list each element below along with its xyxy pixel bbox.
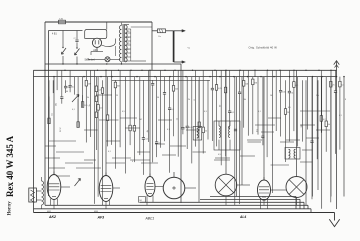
- rectifier tube AZ1: [92, 38, 101, 47]
- wire rectifier anode loop: [85, 30, 107, 39]
- svg-text:100: 100: [84, 105, 87, 107]
- potentiometer arrow volume: [72, 95, 79, 103]
- svg-text:Skalenbel.: Skalenbel.: [85, 59, 96, 61]
- svg-text:30k: 30k: [117, 85, 120, 87]
- wire bottom nest 3: [140, 201, 304, 203]
- transformer TR secondary taps: [125, 28, 131, 30]
- svg-text:0,1: 0,1: [52, 113, 54, 116]
- wire anode loop riser: [106, 22, 108, 30]
- tube V3 AB2: [145, 177, 155, 197]
- ground arrow: [334, 213, 336, 221]
- wire vertical x296.5 to gang2: [296, 70, 298, 176]
- tuning gang C gang2: [286, 177, 307, 198]
- svg-text:2k: 2k: [188, 99, 190, 101]
- svg-text:AL4: AL4: [239, 215, 246, 219]
- resistor box under V3: [139, 197, 146, 203]
- svg-text:Horny: Horny: [8, 201, 13, 216]
- svg-text:0,5: 0,5: [122, 111, 125, 113]
- svg-text:4k: 4k: [147, 130, 149, 132]
- svg-text:0,2: 0,2: [145, 139, 148, 141]
- wire vertical x312.5: [312, 77, 314, 197]
- wire vertical x331: [330, 70, 332, 196]
- svg-text:0,5: 0,5: [288, 107, 291, 109]
- svg-text:5k: 5k: [291, 92, 293, 94]
- svg-text:32 V: 32 V: [60, 127, 62, 132]
- wire vertical comb lines: [48, 80, 50, 118]
- wire vertical x181: [180, 64, 182, 203]
- wire transformer to box right: [131, 26, 152, 28]
- svg-text:8: 8: [194, 99, 196, 100]
- wire bottom nest 2: [200, 198, 300, 200]
- svg-text:AK2: AK2: [48, 215, 56, 219]
- output choke coil: [42, 181, 44, 205]
- svg-text:0,25: 0,25: [218, 88, 222, 90]
- speaker output transformer: [29, 188, 37, 202]
- wire vertical x336.5 right: [336, 77, 338, 209]
- svg-text:2k: 2k: [205, 130, 207, 132]
- wire vertical x106 to tube V2: [105, 70, 107, 175]
- wire vertical x54 to tube V1: [53, 77, 55, 175]
- tube V4 AL4: [258, 180, 271, 200]
- wire vertical x344 right: [343, 77, 345, 197]
- junction dots bus B: [53, 76, 54, 77]
- tube V2 AF3: [99, 176, 113, 202]
- wire inner box left edge: [48, 31, 50, 197]
- components on comb lines: [48, 118, 50, 124]
- wire power box right edge: [151, 22, 153, 70]
- svg-text:4k: 4k: [328, 124, 330, 126]
- wire vertical x264 to tube V4: [263, 77, 265, 180]
- svg-text:0,5: 0,5: [72, 86, 75, 88]
- wire bottom ground line: [34, 212, 335, 214]
- tube V1 AK2: [47, 175, 61, 200]
- IF transformer box 1: [214, 121, 240, 150]
- svg-text:1M: 1M: [67, 87, 70, 89]
- svg-text:10k: 10k: [175, 89, 178, 91]
- svg-text:4: 4: [132, 161, 133, 163]
- svg-text:Rex 40 W 345 A: Rex 40 W 345 A: [5, 135, 15, 197]
- wire bottom nest 5: [34, 208, 312, 210]
- svg-text:0,4: 0,4: [98, 90, 101, 92]
- svg-text:Dr.: Dr.: [159, 35, 162, 38]
- svg-text:0,1: 0,1: [108, 151, 111, 153]
- wire tube links: [61, 186, 70, 188]
- svg-text:110: 110: [127, 49, 130, 51]
- wire left frame vertical x33.5: [33, 70, 35, 212]
- svg-text:2M: 2M: [287, 112, 290, 114]
- transformer TR secondary winding: [125, 25, 127, 62]
- junction dots bus A: [44, 70, 45, 71]
- arrow to speaker top: [174, 30, 183, 32]
- transformer TR core: [122, 24, 124, 62]
- svg-text:8: 8: [345, 99, 346, 101]
- antenna: [336, 61, 338, 77]
- svg-text:0,1: 0,1: [232, 112, 235, 114]
- wire rectifier cathode: [91, 51, 103, 53]
- svg-text:150: 150: [127, 37, 130, 39]
- wire speaker links: [36, 190, 41, 192]
- wire inner box top edge: [49, 30, 83, 32]
- svg-text:1M: 1M: [254, 82, 257, 84]
- wire bus A y70: [34, 69, 337, 71]
- svg-text:AF3: AF3: [97, 216, 105, 220]
- svg-text:100: 100: [282, 91, 285, 93]
- svg-text:1M: 1M: [139, 119, 142, 121]
- wire vertical x242: [241, 77, 243, 185]
- wire bottom nest 1: [210, 196, 296, 198]
- svg-text:0,1: 0,1: [258, 111, 261, 113]
- svg-text:4 B1: 4 B1: [52, 33, 57, 35]
- svg-text:1k: 1k: [177, 118, 179, 120]
- speaker connector bar: [173, 31, 175, 62]
- svg-text:220: 220: [127, 31, 130, 33]
- wire vertical x318: [317, 80, 319, 190]
- potentiometer arrow tone: [75, 179, 81, 187]
- svg-text:0,3: 0,3: [100, 108, 103, 110]
- wire power box left edge: [44, 22, 46, 205]
- wire bus HT upper y64: [45, 63, 181, 65]
- svg-text:125: 125: [127, 43, 130, 45]
- wire rectifier right loop: [101, 39, 115, 47]
- wire bus tie x255: [254, 70, 256, 76]
- svg-text:0,3: 0,3: [204, 111, 207, 113]
- wire vertical x321.7: [321, 77, 323, 209]
- wire power box top edge: [45, 21, 152, 23]
- svg-text:25: 25: [116, 95, 118, 97]
- svg-text:ABC1: ABC1: [145, 217, 155, 221]
- svg-text:0,5: 0,5: [218, 154, 221, 156]
- junction dots y64: [62, 63, 63, 64]
- svg-text:2M: 2M: [88, 84, 91, 86]
- svg-text:60: 60: [220, 105, 222, 107]
- oscillator coil L1: [193, 127, 202, 141]
- svg-text:50k: 50k: [245, 84, 248, 86]
- svg-text:10k: 10k: [243, 99, 246, 101]
- switch S1: [62, 31, 64, 49]
- svg-text:0,1: 0,1: [171, 109, 174, 111]
- wire vertical x306: [305, 80, 307, 205]
- fuse F1: [59, 20, 66, 24]
- dial lamp: [105, 57, 110, 62]
- svg-text:50: 50: [157, 97, 159, 99]
- svg-text:5k: 5k: [89, 104, 91, 106]
- svg-text:0,1: 0,1: [72, 109, 75, 111]
- choke Dr: [152, 30, 158, 32]
- svg-text:5k: 5k: [87, 97, 89, 99]
- svg-text:40: 40: [66, 91, 68, 93]
- drum circle D1: [163, 177, 185, 199]
- svg-text:0,5: 0,5: [256, 129, 258, 132]
- svg-text:0,05: 0,05: [189, 127, 193, 129]
- wire bus B y76.5: [34, 76, 338, 78]
- switch S2: [76, 47, 77, 48]
- volume ladder: [95, 86, 97, 92]
- wire bus C y80: [112, 79, 210, 81]
- wire link gang2 right: [300, 161, 313, 163]
- svg-text:Vz: Vz: [188, 48, 191, 50]
- wire interconnect segments: [49, 140, 76, 142]
- svg-text:0,1: 0,1: [339, 115, 342, 117]
- wire lamp feed: [87, 58, 89, 59]
- wire vertical x236.4: [235, 77, 237, 197]
- svg-text:50k: 50k: [316, 95, 319, 97]
- tuning gang C gang1: [215, 174, 237, 196]
- svg-text:0,1: 0,1: [167, 129, 170, 131]
- capacitor C1: [76, 31, 78, 40]
- svg-text:1M: 1M: [270, 95, 273, 97]
- arrow to speaker bottom: [174, 61, 183, 63]
- svg-text:50k: 50k: [56, 103, 58, 106]
- IF transformer box 2: [285, 148, 300, 160]
- svg-text:0,2: 0,2: [323, 119, 326, 121]
- transformer TR primary winding: [119, 26, 121, 62]
- svg-text:25: 25: [332, 85, 334, 87]
- svg-text:Orig. Schaltbild 40 W: Orig. Schaltbild 40 W: [249, 45, 278, 49]
- wire bottom nest 4: [45, 204, 308, 206]
- wire vertical x150 to tube V3: [149, 70, 151, 176]
- wire vertical x199: [198, 80, 200, 202]
- wire vertical x226 to gang1: [225, 70, 227, 174]
